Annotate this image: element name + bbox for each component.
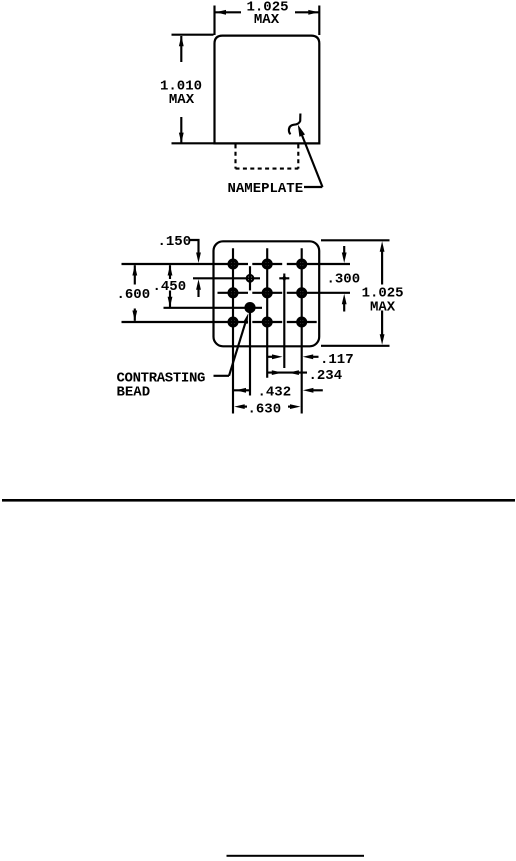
left dim 1.010 arrow down [179,133,184,144]
nameplate leader diagonal [302,134,323,187]
dim .150 arrow down at row 1 [196,253,201,264]
nameplate hook symbol [289,114,301,135]
bottom footer rule [227,855,365,857]
dim .600 arrow up [132,265,137,276]
pin column 2 line [266,248,268,377]
contrasting bead [244,302,255,313]
nameplate dashed outline [236,144,299,168]
dim .432 right arrow left at col 3 [303,388,314,393]
top dim 1.025 extension line left [213,6,215,36]
dim .117 arrow right [272,354,283,359]
svg-text:.234: .234 [309,368,343,384]
top dim 1.025 arrow right [308,10,319,15]
top dim 1.025 dimension line left segment [216,11,242,13]
dim .150 lower arrow tail [197,289,199,297]
index pin vertical cross [249,266,251,290]
bead column extension line [249,309,251,396]
index pin row line [193,277,260,279]
dim .300 arrow down at row 1 [342,253,347,264]
dim .300 arrow up at row 2 [342,294,347,305]
pin row 2 line [218,292,351,294]
dim .600 upper segment [134,265,136,284]
right dim 1.025 extension line bottom [321,345,390,347]
svg-text:MAX: MAX [254,12,280,28]
svg-text:.150: .150 [158,234,192,250]
dim .450 upper segment [169,265,171,279]
dim .630 arrow left [234,404,245,409]
right dim 1.025 arrow up [380,241,385,252]
dim .150 bracket [190,240,199,253]
dim .630 right line [288,406,291,408]
pin row 3 line [122,321,317,323]
dim .432 left line [233,389,250,391]
bead leader horizontal segment [214,375,230,377]
left dim 1.010 dimension line bottom segment [180,117,182,143]
pin B2 [264,289,271,296]
nameplate leader arrowhead [298,125,305,137]
left dim 1.010 arrow up [179,36,184,47]
dim .300 lower tail [343,304,345,312]
right dim 1.025 extension line top [321,239,390,241]
nameplate leader horizontal segment [304,186,322,188]
dim .150 lower arrow up at index row [196,279,201,290]
pin B1 [229,289,236,296]
bottom view can outline [214,241,320,346]
right dim 1.025 arrow down [380,334,385,345]
dim .630 arrow right [290,404,301,409]
dim .450 arrow down [168,297,173,308]
pin C3 [298,318,305,325]
dim .432 arrow left [236,388,247,393]
right dim 1.025 lower segment [381,311,383,336]
left dim 1.010 dimension line top segment [180,36,182,62]
bead row line [164,307,263,309]
dim .300 upper tail [343,246,345,253]
dim .117 right tail [313,356,319,358]
pin C1 [229,318,236,325]
dim .234 line [267,372,307,374]
left dim 1.010 extension line bottom [172,142,214,144]
top dim 1.025 arrow left [216,10,227,15]
dim .117 line [267,356,274,358]
center mark diamond [282,275,286,282]
pin B3 [298,289,305,296]
svg-text:BEAD: BEAD [117,385,151,401]
top view can outline [215,36,320,144]
top dim 1.025 extension line right [318,6,320,36]
bead leader diagonal [229,323,245,376]
svg-text:MAX: MAX [370,299,396,315]
top dim 1.025 dimension line right segment [295,11,319,13]
svg-text:NAMEPLATE: NAMEPLATE [228,181,304,197]
svg-text:MAX: MAX [169,92,195,108]
dim .450 arrow up [168,265,173,276]
pin row 1 line [122,263,351,265]
pin A2 [264,260,271,267]
svg-text:.600: .600 [117,287,151,303]
dim .600 lower segment [134,309,136,321]
dim .234 arrow left [288,370,299,375]
svg-text:.300: .300 [327,272,361,288]
svg-text:.432: .432 [258,384,292,400]
center mark horizontal arm [279,277,289,279]
index pin circle [247,275,254,282]
dim .117 right arrow left [303,354,314,359]
pin A3 [298,260,305,267]
svg-text:.117: .117 [320,352,354,368]
svg-text:.630: .630 [248,402,282,418]
right dim 1.025 upper segment [381,251,383,285]
dim .450 lower segment [169,291,171,308]
dim .432 right tail [313,389,323,391]
bead leader arrowhead [243,313,248,324]
pin column 1 line [232,248,234,413]
left dim 1.010 extension line top [172,34,214,36]
dim .234 arrow right [272,370,283,375]
pin A1 [229,260,236,267]
center mark column line [283,274,285,369]
dim .630 left line [243,406,247,408]
dim .600 arrow down [132,311,137,322]
pin column 3 line [301,248,303,413]
pin C2 [264,318,271,325]
page divider rule [2,499,515,502]
